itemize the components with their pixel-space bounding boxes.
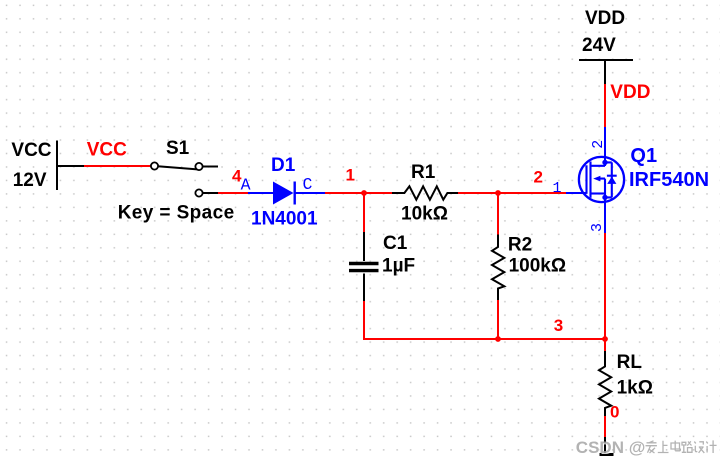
svg-text:2: 2 (590, 140, 607, 149)
svg-text:CSDN @: CSDN @ (576, 438, 645, 457)
svg-text:RL: RL (617, 352, 643, 373)
svg-text:1µF: 1µF (382, 255, 415, 276)
svg-text:R1: R1 (411, 162, 436, 183)
svg-text:D1: D1 (271, 155, 296, 176)
svg-text:12V: 12V (13, 170, 47, 191)
svg-text:100kΩ: 100kΩ (509, 256, 567, 277)
svg-text:S1: S1 (166, 138, 190, 159)
svg-text:VCC: VCC (11, 140, 51, 161)
svg-text:1: 1 (553, 180, 562, 197)
svg-text:C1: C1 (383, 233, 408, 254)
svg-text:Key = Space: Key = Space (118, 203, 235, 224)
svg-text:3: 3 (554, 316, 563, 335)
svg-text:C: C (303, 175, 313, 194)
svg-text:0: 0 (610, 403, 619, 422)
svg-text:VDD: VDD (585, 8, 625, 29)
svg-text:1kΩ: 1kΩ (617, 377, 653, 398)
svg-text:R2: R2 (508, 234, 532, 255)
svg-text:2: 2 (534, 167, 543, 186)
svg-text:VCC: VCC (87, 140, 127, 161)
svg-text:VDD: VDD (610, 82, 650, 103)
svg-text:A: A (241, 175, 251, 194)
svg-text:10kΩ: 10kΩ (401, 204, 448, 225)
svg-text:1: 1 (346, 166, 355, 185)
svg-text:24V: 24V (582, 35, 616, 56)
svg-text:IRF540N: IRF540N (629, 169, 709, 191)
svg-text:3: 3 (589, 223, 606, 232)
svg-text:1N4001: 1N4001 (251, 209, 318, 230)
svg-text:Q1: Q1 (630, 145, 657, 167)
